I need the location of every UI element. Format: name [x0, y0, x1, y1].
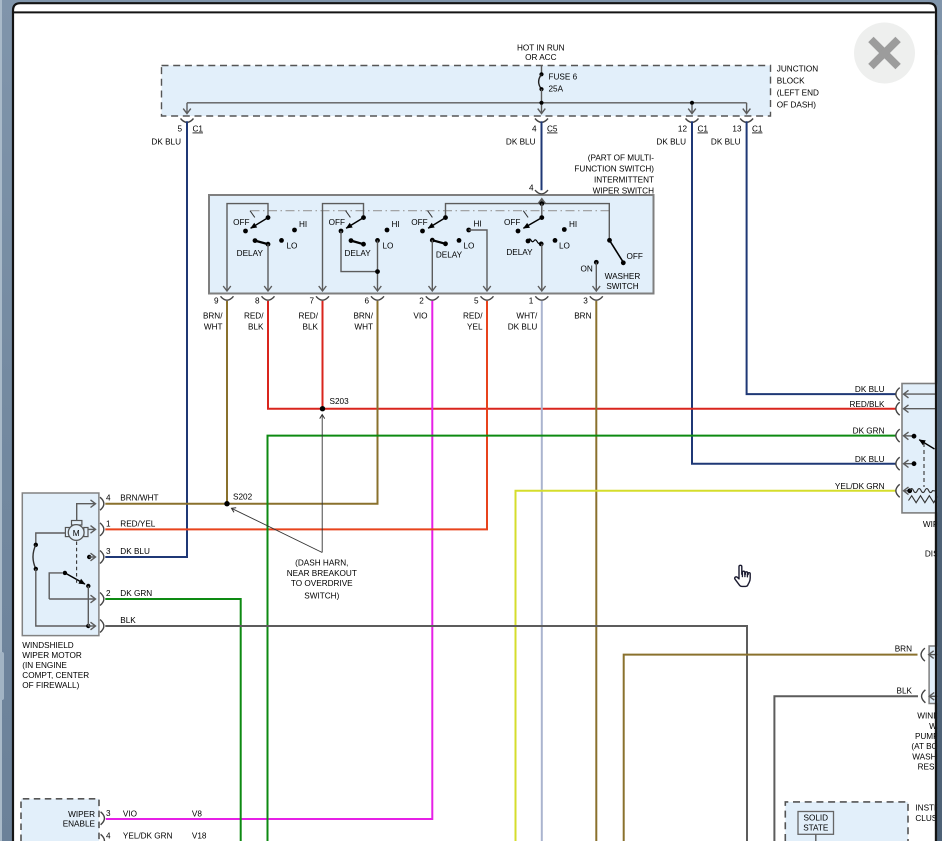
leader arrow to S203	[321, 415, 323, 553]
pin1 color label	[508, 312, 538, 332]
svg-text:LO: LO	[559, 242, 570, 251]
svg-text:V18: V18	[192, 831, 207, 840]
wire BRN/WHT pin9 to S202	[226, 301, 228, 504]
svg-text:DELAY: DELAY	[506, 248, 533, 257]
svg-text:OFF: OFF	[233, 218, 249, 227]
s1 OFF contact	[243, 229, 248, 234]
svg-text:BLK: BLK	[303, 323, 319, 332]
svg-text:4: 4	[532, 125, 537, 134]
motor cup pin3	[100, 551, 104, 564]
fuse 6 feed wire	[541, 66, 543, 75]
s1 pivot dot	[266, 215, 271, 220]
relay stub DK GRN	[904, 435, 915, 437]
s2 pivot dot	[361, 215, 366, 220]
svg-text:DELAY: DELAY	[436, 251, 463, 260]
svg-text:ENABLE: ENABLE	[63, 820, 96, 829]
svg-text:(DASH HARN,: (DASH HARN,	[295, 558, 348, 567]
relay linkage dashed	[923, 443, 925, 487]
svg-text:OFF: OFF	[504, 218, 520, 227]
s2 junction dot	[375, 269, 380, 274]
svg-text:STATE: STATE	[803, 824, 829, 833]
wiper enable dashed border	[21, 799, 99, 841]
svg-text:6: 6	[364, 296, 369, 305]
svg-text:WHT: WHT	[354, 323, 373, 332]
svg-text:DK BLU: DK BLU	[855, 385, 885, 394]
washer pump box	[929, 646, 942, 704]
svg-text:25A: 25A	[549, 85, 564, 94]
desktop background top strip	[0, 0, 942, 4]
wire BRN washer pump feed	[624, 655, 918, 841]
svg-text:DK BLU: DK BLU	[656, 138, 686, 147]
s3 pivot dot	[443, 215, 448, 220]
svg-text:1: 1	[529, 296, 534, 305]
relay cup YEL/DK GRN	[896, 484, 900, 497]
ground junction dot	[86, 624, 90, 628]
svg-text:RED/BLK: RED/BLK	[849, 400, 885, 409]
motor armature circle	[68, 525, 84, 541]
svg-text:VIO: VIO	[123, 810, 137, 819]
wire DK GRN motor pin2 down	[105, 599, 240, 841]
svg-text:HI: HI	[569, 220, 577, 229]
s1 DELAY bar	[253, 238, 271, 246]
svg-text:WASHER: WASHER	[605, 272, 641, 281]
svg-text:OR ACC: OR ACC	[525, 53, 556, 62]
svg-text:YEL/DK GRN: YEL/DK GRN	[835, 482, 885, 491]
s1 blade	[251, 218, 268, 229]
s2 rail pin7	[323, 204, 364, 291]
splice S202	[224, 501, 229, 506]
svg-text:OFF: OFF	[627, 252, 643, 261]
junction block bus rail	[187, 102, 747, 104]
switch bottom connector cup pin6	[371, 296, 384, 300]
svg-text:HOT IN RUN: HOT IN RUN	[517, 43, 565, 52]
svg-text:COMPT, CENTER: COMPT, CENTER	[22, 671, 89, 680]
s3 HI contact	[466, 228, 471, 233]
s1 delay rail to pin8	[267, 244, 269, 291]
wiper motor box	[22, 493, 99, 636]
s2 HI contact	[385, 228, 390, 233]
s2 OFF contact	[339, 229, 344, 234]
s1 rail pin9	[227, 204, 268, 291]
svg-text:YEL/DK GRN: YEL/DK GRN	[123, 831, 173, 840]
svg-text:ON: ON	[581, 265, 593, 274]
desktop background right strip	[932, 0, 942, 841]
svg-text:DK BLU: DK BLU	[508, 323, 538, 332]
connector cup pin 4 C5	[535, 119, 548, 123]
motor brush left	[65, 528, 69, 537]
svg-text:BRN: BRN	[895, 645, 912, 654]
motor right brush to pin1	[88, 528, 96, 530]
washer pump cup BLK	[922, 690, 926, 703]
svg-text:9: 9	[214, 296, 219, 305]
pin8 color label	[244, 312, 264, 332]
s4 feed to pivot	[541, 204, 543, 218]
svg-text:NEAR BREAKOUT: NEAR BREAKOUT	[287, 569, 357, 578]
ganged linkage dash-dot line	[251, 210, 610, 212]
relay DK GRN contact dot	[912, 434, 917, 439]
connector cup pin 13 C1	[740, 119, 753, 123]
svg-text:BLK: BLK	[897, 687, 913, 696]
junction block box	[162, 66, 771, 117]
wire BLK motor ground run	[105, 626, 747, 841]
motor to park dashed link	[76, 542, 78, 584]
svg-text:LO: LO	[464, 242, 475, 251]
wiper enable cup pin4 partial	[101, 834, 105, 841]
relay armature blade	[919, 440, 934, 449]
rail node at pin12	[690, 101, 694, 105]
fuse 6 symbol	[539, 72, 544, 91]
svg-text:YEL: YEL	[467, 323, 483, 332]
wire DK BLU jb12 to relay module	[692, 121, 896, 463]
relay cup DK BLU b	[896, 457, 900, 470]
leader arrow to S202	[232, 508, 323, 552]
park switch pivot dot	[63, 571, 67, 575]
motor top cap to pin4	[77, 504, 96, 521]
park contact to ground	[87, 586, 89, 626]
s4 LO contact	[553, 238, 558, 243]
fuse output wire to rail	[541, 89, 543, 103]
svg-text:5: 5	[474, 296, 479, 305]
s3 delay rail to pin2	[431, 240, 433, 291]
circuit breaker arc	[33, 545, 36, 569]
svg-text:BRN/: BRN/	[353, 312, 373, 321]
svg-text:HI: HI	[474, 220, 482, 229]
park switch blade	[65, 573, 85, 584]
svg-text:SWITCH: SWITCH	[606, 282, 638, 291]
wire RED/YEL pin5 to motor pin1	[105, 301, 487, 530]
switch pin4 entry cup	[535, 190, 548, 194]
relay cup DK BLU a	[896, 388, 900, 401]
s1 HI contact	[292, 228, 297, 233]
rail drop to pin 4 C5	[541, 105, 543, 114]
switch bottom connector cup pin7	[316, 296, 329, 300]
wire BLK washer pump ground	[774, 696, 918, 841]
svg-text:JUNCTION: JUNCTION	[777, 65, 818, 74]
s3 OFF contact	[420, 229, 425, 234]
svg-text:(IN ENGINE: (IN ENGINE	[22, 661, 67, 670]
svg-text:OFF: OFF	[411, 218, 427, 227]
svg-text:BLK: BLK	[248, 323, 264, 332]
s2 LO rail to pin6	[377, 240, 379, 291]
wire WHT/DK BLU pin1 down	[541, 301, 543, 841]
relay DK BLU contact dot	[912, 461, 917, 466]
s4 HI contact	[562, 227, 567, 232]
svg-text:C1: C1	[752, 125, 763, 134]
svg-text:WIPER MOTOR: WIPER MOTOR	[22, 651, 82, 660]
svg-text:4: 4	[106, 831, 111, 840]
s3 top rail to washer	[446, 204, 610, 238]
svg-text:DELAY: DELAY	[237, 249, 264, 258]
s1 LO contact	[279, 238, 284, 243]
svg-text:RED/YEL: RED/YEL	[120, 519, 155, 528]
relay coil terminal dot	[907, 488, 912, 493]
svg-text:BLK: BLK	[120, 616, 136, 625]
wire DK BLU jb13 to relay module	[747, 121, 896, 394]
motor pin3 stub	[89, 556, 95, 558]
splice S203	[320, 406, 325, 411]
svg-text:2: 2	[106, 589, 111, 598]
wire BRN pin3 down	[595, 301, 597, 841]
wire BRN/WHT pin6 to motor pin4	[105, 301, 377, 504]
svg-text:BRN/WHT: BRN/WHT	[120, 494, 158, 503]
svg-text:TO OVERDRIVE: TO OVERDRIVE	[291, 579, 353, 588]
svg-text:DK BLU: DK BLU	[151, 138, 181, 147]
close button	[854, 23, 915, 84]
motor pin3 terminal dot	[87, 555, 91, 559]
left strip edge highlight	[0, 0, 2, 841]
motor cup pin4	[100, 497, 104, 510]
s2 OFF link wire	[341, 231, 378, 272]
pin7 color label	[298, 312, 318, 332]
svg-text:8: 8	[255, 296, 260, 305]
svg-text:LO: LO	[383, 242, 394, 251]
svg-text:DELAY: DELAY	[344, 249, 371, 258]
wire DK GRN relay module branch down	[268, 436, 896, 841]
ground to BLK pin	[88, 625, 95, 627]
svg-text:RED/: RED/	[244, 312, 264, 321]
svg-text:(LEFT END: (LEFT END	[777, 89, 819, 98]
switch bottom connector cup pin9	[221, 296, 234, 300]
motor cup pin2	[100, 593, 104, 606]
desktop background left strip	[0, 0, 15, 841]
relay stub DK BLU b	[904, 463, 915, 465]
svg-text:7: 7	[309, 296, 314, 305]
relay coil row2 zigzag	[909, 496, 941, 503]
svg-text:BRN/: BRN/	[203, 312, 223, 321]
s2 LO contact	[375, 238, 380, 243]
svg-text:HI: HI	[392, 220, 400, 229]
relay stub DK BLU a	[904, 393, 937, 395]
s2 DELAY bar	[349, 238, 366, 246]
relay cup RED/BLK	[896, 402, 900, 415]
connector cup pin 5 C1	[181, 119, 194, 123]
svg-text:C1: C1	[698, 125, 709, 134]
svg-text:3: 3	[106, 809, 111, 818]
svg-text:OFF: OFF	[329, 218, 345, 227]
s4 delay rail to pin1	[541, 244, 543, 291]
svg-text:3: 3	[106, 547, 111, 556]
svg-text:HI: HI	[299, 220, 307, 229]
rail node at fuse	[539, 101, 543, 105]
svg-text:3: 3	[583, 296, 588, 305]
svg-text:DK BLU: DK BLU	[506, 138, 536, 147]
washer pump stub BLK	[929, 695, 941, 697]
motor brush right	[84, 528, 88, 537]
switch bottom connector cup pin5	[481, 296, 494, 300]
switch bottom connector cup pin3	[590, 296, 603, 300]
s2 blade	[346, 218, 363, 229]
switch pin4 entry arrow	[541, 199, 543, 204]
washer pump stub BRN	[929, 654, 941, 656]
linkage tick s3	[428, 211, 433, 218]
motor cup pin1	[100, 523, 104, 536]
breaker to ground run	[36, 569, 89, 626]
svg-text:BRN: BRN	[574, 312, 591, 321]
svg-text:2: 2	[419, 296, 424, 305]
wiper enable box fill	[21, 799, 99, 841]
svg-text:4: 4	[529, 183, 534, 192]
rail drop to pin 13 C1	[746, 103, 748, 114]
popup right border overlay	[935, 50, 937, 841]
svg-text:V8: V8	[192, 810, 202, 819]
wire DK BLU jb4 to switch pin4	[541, 121, 543, 190]
popup header divider	[14, 11, 935, 13]
s3 DELAY bar	[430, 238, 448, 246]
svg-text:DK BLU: DK BLU	[120, 547, 150, 556]
svg-text:WHT: WHT	[204, 323, 223, 332]
svg-text:M: M	[73, 529, 80, 538]
svg-text:WIPER: WIPER	[68, 810, 95, 819]
connector cup pin 12 C1	[686, 119, 699, 123]
svg-text:WHT/: WHT/	[516, 312, 538, 321]
relay cup DK GRN	[896, 429, 900, 442]
park feed to pin2 arrow	[49, 598, 95, 600]
svg-text:SOLID: SOLID	[804, 813, 829, 822]
linkage tick s1	[250, 211, 255, 218]
left strip light patch	[0, 652, 4, 700]
relay stub YEL/DK GRN	[904, 490, 910, 492]
wire RED/BLK pin8 via S203 to relay module	[268, 301, 896, 409]
wire VIO pin2 to wiper enable	[106, 301, 433, 819]
park contact dot	[86, 584, 90, 588]
svg-text:13: 13	[732, 125, 742, 134]
rail drop to pin 5 C1	[186, 103, 188, 114]
rail drop to pin 12 C1	[691, 105, 693, 114]
s3 HI rail to pin5	[469, 230, 487, 291]
right strip overlay	[937, 55, 942, 841]
linkage tick s2	[346, 211, 351, 218]
svg-text:INTERMITTENT: INTERMITTENT	[594, 175, 654, 184]
svg-text:12: 12	[678, 125, 688, 134]
svg-text:VIO: VIO	[413, 312, 427, 321]
washer switch blade	[610, 240, 624, 262]
svg-text:DK GRN: DK GRN	[120, 589, 152, 598]
svg-text:S203: S203	[330, 397, 350, 406]
relay stub RED/BLK	[904, 408, 937, 410]
mouse hand cursor	[735, 565, 751, 586]
svg-text:DK BLU: DK BLU	[855, 455, 885, 464]
s3 LO contact	[457, 238, 462, 243]
circuit breaker top dot	[34, 543, 38, 547]
relay coil row1	[910, 489, 936, 493]
svg-text:OF DASH): OF DASH)	[777, 101, 816, 110]
solid state box	[798, 812, 834, 835]
pin5 color label	[463, 312, 483, 332]
svg-text:FUNCTION SWITCH): FUNCTION SWITCH)	[574, 164, 654, 173]
switch bottom connector cup pin2	[426, 296, 439, 300]
pin9 color label	[203, 312, 223, 332]
svg-text:DK BLU: DK BLU	[711, 138, 741, 147]
svg-text:LO: LO	[287, 242, 298, 251]
wiper relay module box	[902, 384, 942, 513]
motor top cap	[72, 521, 82, 526]
washer switch pivot dot	[607, 238, 612, 243]
intermittent wiper switch box	[209, 195, 654, 294]
svg-text:5: 5	[177, 125, 182, 134]
svg-text:S202: S202	[233, 493, 253, 502]
svg-text:RED/: RED/	[298, 312, 318, 321]
washer ON rail to pin3	[595, 262, 597, 291]
svg-text:1: 1	[106, 519, 111, 528]
washer pump cup BRN	[921, 648, 925, 661]
s4 DELAY resistor squiggle	[526, 239, 544, 247]
wire DK BLU jb5 to motor pin3	[105, 121, 187, 557]
motor cup BLK	[100, 620, 104, 633]
instrument cluster dashed border	[785, 802, 908, 841]
pin6 color label	[353, 312, 373, 332]
washer OFF contact	[621, 260, 626, 265]
svg-text:DK GRN: DK GRN	[853, 427, 885, 436]
s4 feed junction dot	[539, 201, 544, 206]
svg-text:4: 4	[106, 494, 111, 503]
svg-text:(PART OF MULTI-: (PART OF MULTI-	[588, 153, 655, 162]
s4 OFF contact	[516, 229, 521, 234]
switch bottom connector cup pin8	[262, 296, 275, 300]
wire YEL/DK GRN relay module down	[516, 491, 896, 841]
circuit breaker bottom dot	[34, 567, 38, 571]
svg-text:FUSE 6: FUSE 6	[549, 73, 578, 82]
motor left brush to breaker	[36, 533, 66, 545]
svg-text:C1: C1	[193, 125, 204, 134]
s3 blade	[428, 218, 445, 229]
wiper enable cup pin3	[101, 812, 105, 825]
linkage tick s4	[523, 211, 528, 218]
park switch feed from pin2	[49, 573, 62, 599]
instrument cluster box fill	[785, 802, 908, 841]
wire RED/BLK pin7 to S203	[322, 301, 324, 409]
washer ON contact	[594, 260, 599, 265]
svg-text:RED/: RED/	[463, 312, 483, 321]
s4 blade	[523, 218, 541, 229]
svg-text:BLOCK: BLOCK	[777, 77, 805, 86]
svg-text:C5: C5	[547, 125, 558, 134]
svg-text:SWITCH): SWITCH)	[304, 592, 339, 601]
s4 pivot dot	[539, 215, 544, 220]
svg-text:OF FIREWALL): OF FIREWALL)	[22, 681, 79, 690]
svg-text:WIPER SWITCH: WIPER SWITCH	[593, 186, 654, 195]
solid state lead down	[815, 834, 817, 841]
svg-text:WINDSHIELD: WINDSHIELD	[22, 641, 73, 650]
switch bottom connector cup pin1	[535, 296, 548, 300]
